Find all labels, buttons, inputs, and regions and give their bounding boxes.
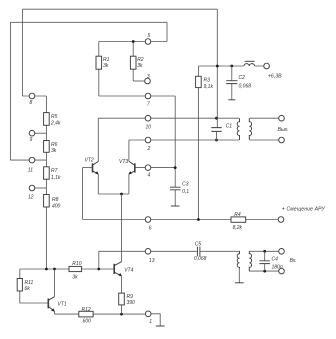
svg-text:1,1k: 1,1k [51,175,61,181]
svg-text:10: 10 [146,124,152,130]
pin 10 [145,115,151,121]
wire pin 2 row to C1 bottom [129,139,217,141]
node junction C2 top [230,65,233,68]
svg-text:Вх.: Вх. [290,258,297,264]
svg-text:13: 13 [149,258,155,264]
node junction chain bottom [45,268,48,271]
svg-text:180п: 180п [272,264,283,270]
ground for C3 [171,205,180,207]
svg-text:C1: C1 [226,124,233,130]
node junction rail A at +6.3V row [216,65,219,68]
wire VT2 base lead [83,167,93,169]
wire pin 7 row from R1 to vertical x=175 [99,95,175,97]
svg-text:C5: C5 [195,242,202,248]
wire pin 4 row (VT3 base to C3 node) [135,167,175,169]
wire VT2 emitter vertical [97,174,99,194]
resistor R4 [231,217,246,222]
wire C2 bottom lead [231,84,233,100]
wire pin 8 row [22,95,46,97]
svg-text:9: 9 [30,137,33,143]
transistor VT3 [129,161,135,174]
inductor choke L1 on +6.3V feed [244,61,255,66]
node junction pin4/pin7/C3 [174,166,177,169]
svg-text:R6: R6 [51,142,58,148]
wire vertical pin7 to pin4 node [174,96,176,187]
wire VT4 emitter to R9 [121,276,123,293]
wire rail B left vertical down to pin 11 [9,22,11,160]
wire pin 1 to ground [151,314,160,326]
wire T2 secondary bottom row to input terminal [249,270,279,272]
svg-text:R3: R3 [204,78,211,84]
resistor R3 [196,76,202,87]
resistor R7 [44,167,50,179]
svg-text:0,068: 0,068 [239,84,252,90]
svg-text:6k: 6k [25,286,31,292]
wire AGC row y=219.5 (pin 6 to R4 and terminal) [83,219,279,221]
wire R3 bottom lead down to AGC row [197,88,199,220]
wire VT3 emitter vertical [128,174,130,194]
svg-text:VT2: VT2 [85,158,94,164]
wire pin 9 row [32,132,46,134]
wire T2 primary bottom to ground [238,268,240,282]
svg-text:1: 1 [149,319,152,325]
capacitor C3 [170,187,181,190]
pin 4 [145,165,151,171]
svg-text:C4: C4 [272,257,279,263]
svg-text:VT4: VT4 [124,268,133,274]
svg-text:8,2k: 8,2k [233,225,243,231]
pin 13 [145,249,151,255]
svg-text:12: 12 [28,194,34,200]
wire VT1 emitter to R12 row [54,311,56,314]
svg-text:2,4k: 2,4k [50,120,61,126]
svg-text:600: 600 [83,318,92,324]
wire T1 primary bottom lead [217,139,240,141]
svg-text:2: 2 [147,146,151,152]
wire emitter row y=314.1 [55,313,149,315]
pin 9 [29,130,35,136]
wire pin 3 row [133,80,147,82]
wire R3 top lead [197,66,199,76]
pin 12 [29,185,35,191]
pin 8 [29,93,35,99]
wire C3 bottom lead [174,190,176,206]
svg-text:6: 6 [149,226,152,232]
wire VT2 base vertical down to AGC row [82,168,84,220]
capacitor C4 [259,261,270,264]
wire R11 top lead [19,269,21,279]
wire pin 13 row left segment [99,250,197,252]
wire top rail A horizontal [22,8,217,10]
wire R1 bottom lead to pin 7 row [98,69,100,96]
pin 11 [29,157,35,163]
svg-text:3: 3 [147,74,150,80]
svg-text:+ Смещение АРУ: + Смещение АРУ [282,206,326,212]
terminal output bottom [279,137,285,143]
transformer T2 secondary winding [249,251,251,271]
wire rail A right vertical down to +6.3V node and C1 top [216,9,218,127]
svg-text:Вых.: Вых. [278,127,289,133]
svg-text:400: 400 [52,203,61,209]
wire pin 10 row to C1 top [98,117,216,119]
node junction C1 top [215,117,218,120]
wire R1 top lead [98,42,100,57]
transformer T2 primary winding [237,251,239,268]
wire C4 bottom stem [264,264,266,272]
wire T1 secondary bottom to output terminal [250,139,279,141]
svg-text:R8: R8 [52,197,59,203]
pin 6 [145,217,151,223]
svg-text:3k: 3k [103,63,109,69]
svg-text:8: 8 [30,100,33,106]
node junction tail [120,193,123,196]
terminal input top [279,249,285,255]
transistor VT1 [48,297,55,312]
svg-text:VT1: VT1 [58,302,67,308]
wire T2 secondary top row to input terminal [249,250,279,252]
wire divider chain verticals x=46.4 [45,96,47,269]
wire VT4 base row y=269 [20,268,114,270]
wire pin 12 row [32,187,46,189]
svg-text:+6,3В: +6,3В [268,74,282,80]
wire emitter tail y=194 [98,193,129,195]
resistor R8 [44,195,50,208]
svg-text:C3: C3 [182,182,189,188]
svg-text:0,068: 0,068 [194,256,207,262]
wire R2 top lead [132,42,134,57]
wire C2 top lead [231,66,233,81]
terminal +6.3V [264,63,270,69]
wire pin 11 row [10,159,46,161]
terminal input bottom [279,268,285,274]
wire R11 bottom lead to VT1 base [20,291,49,303]
svg-text:R7: R7 [51,168,58,174]
wire C1 bottom stem [216,131,218,140]
resistor R5 [44,113,50,126]
svg-text:3k: 3k [72,274,78,280]
node junction R2 top on pin5 row [132,40,135,43]
capacitor C2 [226,81,237,84]
wire VT1 collector vertical [54,269,56,297]
resistor R2 [130,56,136,69]
wire R9 bottom lead [121,305,123,314]
node junction pin13 branch [97,268,100,271]
transformer T1 primary winding [237,118,239,140]
resistor R6 [44,141,50,153]
pin 7 [145,93,151,99]
svg-text:11: 11 [28,167,33,173]
resistor R1 [96,56,102,69]
capacitor C1 [211,128,221,132]
node junction VT1 collector [53,268,56,271]
transistor VT2 [93,161,99,174]
node junction R9 bottom [120,313,123,316]
ground for pin 1 [156,325,165,327]
ground for C2 [228,99,235,101]
svg-text:R5: R5 [51,114,58,120]
pin 2 [145,137,151,143]
resistor R9 [119,293,125,305]
node junction R3 on AGC row [197,218,200,221]
svg-text:5: 5 [148,33,151,39]
transistor VT4 [114,262,122,277]
svg-text:R4: R4 [234,212,241,218]
resistor R11 [17,279,22,292]
node junction C4 bottom [263,270,266,273]
wire T1 secondary top to output terminal [250,117,279,119]
pin 3 [145,78,151,84]
terminal AGC bias [278,217,284,223]
pin 5 [145,39,151,45]
transformer T1 secondary winding [249,118,251,140]
terminal output top [279,115,285,121]
svg-text:R12: R12 [82,307,91,313]
wire rail A left vertical down to pin 8 [21,9,23,96]
svg-text:R10: R10 [72,261,81,267]
wire rail B right vertical down to pin 5 row [166,22,168,41]
ground for T2 [235,282,244,284]
wire pin 13 branch vertical x=98.8 [98,251,100,269]
svg-text:0,1: 0,1 [182,189,189,195]
node junction C1 bottom [215,139,218,142]
svg-text:3k: 3k [51,148,57,154]
node junction C4 top [263,250,266,253]
wire C4 top stem [264,251,266,260]
svg-text:VT3: VT3 [119,159,128,165]
wire VT2 collector vertical [97,118,99,161]
wire C5 to T2 primary [200,250,240,252]
wire R2 bottom lead [132,69,134,81]
svg-text:9,1k: 9,1k [204,84,214,90]
wire T1 primary top lead [217,117,240,119]
wire VT3 collector vertical [128,140,130,161]
svg-text:390: 390 [127,300,136,306]
resistor R10 [69,266,82,271]
wire pin 5 row y=41.5 [99,41,167,43]
wire +6.3V row y=66 [198,65,263,67]
wire tail vertical down to VT4 collector [121,194,123,262]
svg-text:C2: C2 [239,75,246,81]
svg-text:4: 4 [148,172,151,178]
resistor R12 [79,311,93,317]
wire rail B horizontal y=22 [10,21,167,23]
capacitor C5 [197,247,200,257]
pin 1 [145,311,151,317]
svg-text:7: 7 [147,102,150,108]
svg-text:3k: 3k [137,63,143,69]
